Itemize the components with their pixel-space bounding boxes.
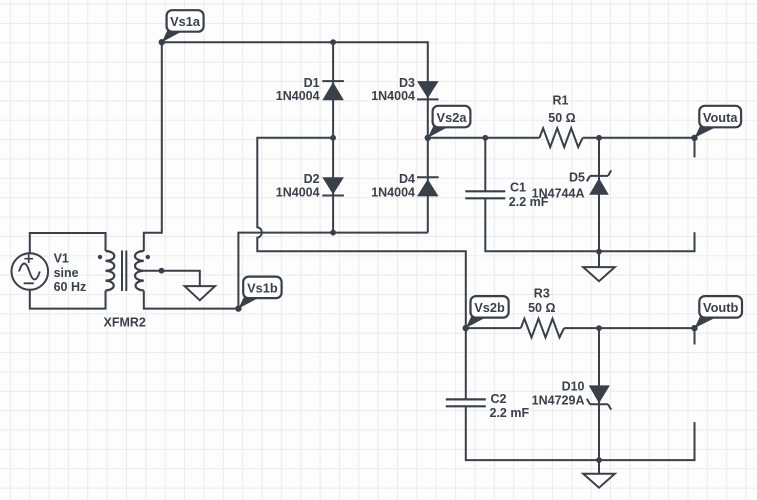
diode D2	[322, 177, 344, 195]
svg-text:Vs2b: Vs2b	[474, 300, 505, 315]
junction dot bridge mid left	[330, 135, 336, 141]
svg-text:1N4004: 1N4004	[276, 89, 320, 103]
junction dot C1 top	[482, 135, 488, 141]
wire D10 column	[598, 328, 600, 460]
svg-text:1N4004: 1N4004	[371, 185, 415, 199]
wire Vs2b rail right segment to Voutb	[564, 327, 694, 329]
label D1	[276, 76, 320, 103]
wire V1 top loop	[30, 233, 106, 253]
resistor R1	[540, 128, 583, 147]
svg-text:Voutb: Voutb	[703, 300, 738, 315]
label C1	[509, 181, 549, 210]
wire D5 column	[598, 138, 600, 252]
svg-text:Vs1a: Vs1a	[170, 14, 201, 29]
zener diode D10	[587, 385, 611, 409]
label D3	[371, 76, 415, 103]
svg-text:D4: D4	[399, 172, 415, 186]
svg-text:60 Hz: 60 Hz	[54, 280, 87, 294]
wire D1-D2 column	[332, 42, 334, 232]
svg-text:V1: V1	[54, 251, 69, 265]
zener diode D5	[587, 170, 611, 194]
svg-text:D2: D2	[304, 172, 320, 186]
svg-text:sine: sine	[54, 266, 79, 280]
wire B bridge mid-left down with hop over wire A to Vs2b	[257, 138, 466, 328]
capacitor C2	[446, 399, 486, 406]
node label Vs1b	[235, 277, 281, 312]
wire C1 top lead	[484, 138, 486, 192]
wire Vs2a rail right segment to Vouta	[583, 137, 695, 139]
svg-text:Vs1b: Vs1b	[247, 281, 278, 296]
svg-text:C2: C2	[491, 392, 507, 406]
junction dot wire A D2 bottom	[330, 230, 336, 236]
ground center tap	[185, 286, 215, 300]
capacitor C1	[465, 191, 505, 198]
svg-text:Vouta: Vouta	[703, 110, 738, 125]
label R3	[528, 287, 555, 316]
node label Vs2a	[425, 106, 471, 141]
primary winding	[106, 251, 115, 291]
label V1 value	[54, 251, 87, 294]
junction dot D5 top	[596, 135, 602, 141]
wire Voutb top stub	[694, 328, 696, 344]
node label Voutb	[691, 296, 742, 331]
wire C2 top lead	[465, 328, 467, 399]
svg-text:1N4729A: 1N4729A	[532, 393, 585, 407]
svg-text:D1: D1	[304, 76, 320, 90]
wire left arm from Vs1a down to transformer secondary top	[144, 42, 162, 251]
label D10	[532, 380, 585, 408]
junction dot D10 top	[596, 325, 602, 331]
diode D1	[322, 81, 344, 100]
svg-text:Vs2a: Vs2a	[437, 110, 468, 125]
phase dot primary	[98, 255, 102, 259]
wire Vouta top stub	[694, 138, 696, 158]
wire top rail Vs1a to D3	[162, 41, 428, 43]
svg-text:1N4004: 1N4004	[371, 89, 415, 103]
svg-text:C1: C1	[510, 181, 526, 195]
junction dot D10 bottom ground rail	[596, 457, 602, 463]
junction dot D5 bottom ground rail	[596, 249, 602, 255]
wire secondary bottom lead to Vs1b node	[144, 291, 239, 309]
diode D3	[417, 81, 439, 99]
ground lower rail	[583, 460, 615, 488]
svg-text:50 Ω: 50 Ω	[528, 301, 555, 315]
wire V1 bottom loop	[30, 290, 106, 309]
node label Vouta	[691, 106, 741, 141]
wire C2 bottom lead and lower ground rail with Voutb lower stub	[466, 406, 695, 460]
transformer XFMR2	[106, 251, 144, 292]
svg-text:2.2 mF: 2.2 mF	[490, 406, 530, 420]
resistor R3	[521, 319, 564, 338]
svg-text:D5: D5	[569, 171, 585, 185]
wire Vs2b rail left segment	[466, 327, 521, 329]
node label Vs1a	[159, 10, 204, 45]
core	[122, 251, 126, 292]
wire D3-D4 column	[427, 41, 429, 232]
svg-text:XFMR2: XFMR2	[104, 316, 146, 330]
svg-text:D10: D10	[562, 380, 585, 394]
label C2	[490, 392, 530, 420]
svg-text:R1: R1	[553, 93, 569, 107]
ground upper rail	[583, 252, 615, 282]
wire transformer center tap	[144, 271, 200, 286]
label R1	[548, 93, 575, 124]
secondary winding	[135, 251, 144, 291]
wire Vs2a rail left segment	[428, 137, 540, 139]
node label Vs2b	[463, 296, 509, 331]
svg-text:50 Ω: 50 Ω	[548, 111, 575, 125]
svg-text:1N4004: 1N4004	[276, 185, 320, 199]
label D4	[371, 172, 415, 199]
svg-text:R3: R3	[534, 287, 550, 301]
junction dot center tap	[159, 268, 165, 274]
svg-text:D3: D3	[399, 76, 415, 90]
wire A Vs1b corner up and right to D4 bottom	[238, 233, 427, 309]
label D2	[276, 172, 320, 199]
junction dot top rail D1	[330, 39, 336, 45]
diode D4	[417, 177, 439, 196]
svg-text:1N4744A: 1N4744A	[532, 186, 585, 200]
wire C1 bottom lead and upper ground rail with Vouta lower stub	[485, 198, 694, 251]
voltage source V1	[12, 253, 49, 290]
label D5	[532, 171, 585, 201]
phase dot secondary	[146, 255, 150, 259]
